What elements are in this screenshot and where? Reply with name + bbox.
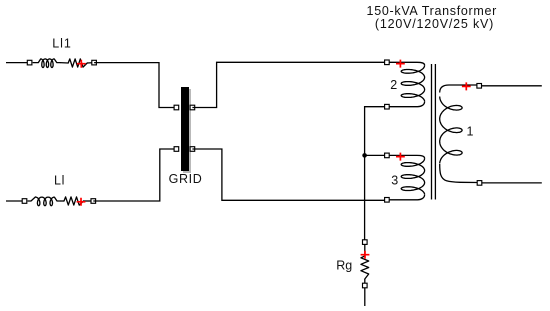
wire bottom-left to GRID <box>93 149 174 201</box>
svg-text:Ll1: Ll1 <box>52 37 71 51</box>
port <box>477 84 482 89</box>
svg-text:3: 3 <box>391 174 398 188</box>
inductor of Ll <box>28 197 61 206</box>
wire bus down to Rg <box>364 155 366 239</box>
port <box>385 104 390 109</box>
port <box>27 60 32 65</box>
svg-text:GRID: GRID <box>169 172 203 186</box>
resistor Rg <box>364 244 366 256</box>
wire <box>6 200 25 202</box>
winding 3 coil <box>389 155 424 158</box>
port <box>190 147 195 152</box>
port <box>385 153 390 158</box>
port <box>91 199 96 204</box>
port <box>385 198 390 203</box>
svg-text:2: 2 <box>390 78 397 92</box>
polarity marker + of winding 1 <box>462 82 471 90</box>
port <box>190 105 195 110</box>
svg-text:Rg: Rg <box>336 259 352 273</box>
wire <box>6 62 30 64</box>
wire winding2 bottom to bus <box>365 107 385 156</box>
wire winding1 top output <box>481 85 542 87</box>
winding 1 coil <box>440 85 477 93</box>
wire top-left to GRID <box>94 63 174 108</box>
polarity marker + of winding 2 <box>396 60 405 68</box>
port <box>363 283 368 288</box>
winding 2 coil <box>389 62 424 65</box>
port <box>363 240 368 245</box>
port <box>477 181 482 186</box>
resistor of Ll1 <box>60 62 68 64</box>
svg-text:150-kVA Transformer: 150-kVA Transformer <box>367 4 497 18</box>
polarity marker + of winding 3 <box>396 153 405 161</box>
GRID bus bar shadow <box>183 89 191 173</box>
wire Rg to ground stub <box>364 288 366 306</box>
port <box>174 147 179 152</box>
port <box>92 60 97 65</box>
port <box>385 60 390 65</box>
transformer core <box>432 64 436 200</box>
port <box>174 105 179 110</box>
resistor of Ll <box>61 200 65 202</box>
svg-text:Ll: Ll <box>54 174 65 188</box>
GRID bus bar <box>181 87 189 171</box>
wire winding1 bottom output <box>482 182 542 184</box>
junction node <box>362 153 367 158</box>
svg-text:(120V/120V/25 kV): (120V/120V/25 kV) <box>375 17 494 31</box>
polarity marker + of Rg <box>361 251 370 259</box>
port <box>22 199 27 204</box>
wire GRID to winding 2 <box>192 62 384 107</box>
inductor of Ll1 <box>33 59 60 68</box>
polarity marker + of Ll <box>77 198 86 206</box>
svg-text:1: 1 <box>467 125 474 139</box>
wire GRID to winding 3 bottom <box>192 149 384 200</box>
polarity marker + of Ll1 <box>77 60 86 68</box>
